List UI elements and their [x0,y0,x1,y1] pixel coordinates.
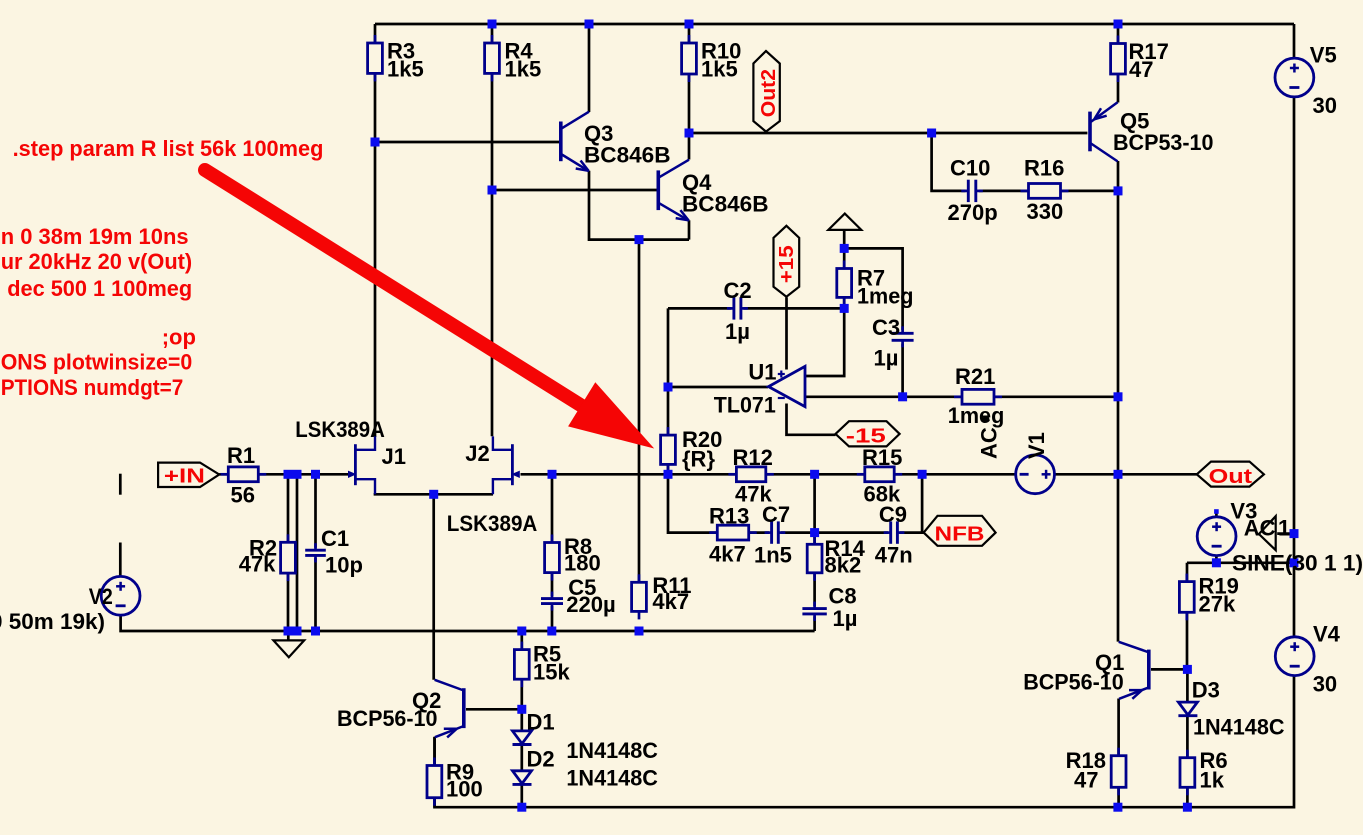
svg-text:C7: C7 [762,502,790,527]
svg-text:dec 500 1 100meg: dec 500 1 100meg [7,276,192,301]
svg-text:BC846B: BC846B [682,192,769,217]
svg-text:AC: AC [977,427,1002,459]
svg-text:V2: V2 [89,584,113,609]
svg-text:J1: J1 [382,444,406,469]
svg-text:D2: D2 [527,747,555,772]
svg-text:BCP53-10: BCP53-10 [1113,130,1214,155]
svg-text:1: 1 [1278,515,1290,540]
svg-text:Out: Out [1209,466,1253,488]
svg-text:8k2: 8k2 [825,553,862,578]
svg-text:R15: R15 [862,445,902,470]
svg-text:270p: 270p [948,200,998,225]
svg-text:47: 47 [1074,768,1098,793]
svg-text:V5: V5 [1310,43,1337,68]
svg-text:27k: 27k [1199,592,1236,617]
svg-text:C3: C3 [872,315,900,340]
svg-text:C9: C9 [879,502,907,527]
svg-text:0 50m 19k): 0 50m 19k) [0,609,105,634]
svg-text:C8: C8 [829,584,857,609]
svg-text:30: 30 [1313,672,1337,697]
svg-text:C2: C2 [724,278,752,303]
svg-text:15k: 15k [533,660,570,685]
svg-text:Out2: Out2 [758,69,780,117]
svg-text:R1: R1 [227,443,255,468]
svg-text:R16: R16 [1024,156,1064,181]
svg-text:220µ: 220µ [566,592,616,617]
svg-text:1k5: 1k5 [387,57,424,82]
svg-text:56: 56 [231,483,255,508]
svg-text:NFB: NFB [935,524,985,546]
svg-text:100: 100 [446,777,483,802]
svg-text:R13: R13 [709,504,749,529]
svg-text:ONS plotwinsize=0: ONS plotwinsize=0 [1,350,193,375]
svg-text:1n5: 1n5 [754,543,792,568]
svg-text:1k5: 1k5 [505,57,542,82]
svg-text:C1: C1 [321,526,349,551]
svg-text:.step param R list 56k 100meg: .step param R list 56k 100meg [13,136,324,161]
svg-text:4k7: 4k7 [652,589,689,614]
svg-text:1meg: 1meg [948,403,1005,428]
svg-text:C10: C10 [950,156,990,181]
svg-text:47n: 47n [875,543,913,568]
svg-text:330: 330 [1027,199,1064,224]
svg-text:AC: AC [1244,515,1276,540]
svg-text:-15: -15 [846,426,886,448]
svg-text:SINE(30 1 1): SINE(30 1 1) [1232,551,1363,576]
svg-text:1k5: 1k5 [701,57,738,82]
svg-text:PTIONS numdgt=7: PTIONS numdgt=7 [1,375,184,400]
svg-text:V1: V1 [1024,432,1049,459]
svg-text:TL071: TL071 [714,393,776,418]
svg-text:ur 20kHz 20 v(Out): ur 20kHz 20 v(Out) [1,249,193,274]
svg-text:BC846B: BC846B [584,143,671,168]
svg-text:1k: 1k [1200,768,1225,793]
svg-text:1µ: 1µ [874,346,899,371]
svg-text:1meg: 1meg [857,284,914,309]
svg-text:J2: J2 [465,441,489,466]
svg-text:BCP56-10: BCP56-10 [1023,670,1123,695]
svg-text:BCP56-10: BCP56-10 [337,706,438,731]
svg-text:D3: D3 [1192,678,1220,703]
svg-text:10p: 10p [325,553,363,578]
svg-text:30: 30 [1313,93,1337,118]
svg-text:;op: ;op [162,325,196,350]
svg-text:+IN: +IN [164,466,205,488]
svg-text:180: 180 [564,551,601,576]
svg-text:47k: 47k [239,552,276,577]
svg-text:1N4148C: 1N4148C [566,738,658,763]
svg-text:U1: U1 [748,360,776,385]
svg-text:47: 47 [1129,57,1153,82]
svg-text:1N4148C: 1N4148C [1193,715,1285,740]
svg-text:n 0 38m 19m 10ns: n 0 38m 19m 10ns [1,224,189,249]
svg-text:1µ: 1µ [725,319,750,344]
svg-text:LSK389A: LSK389A [447,511,538,536]
svg-text:1N4148C: 1N4148C [566,766,658,791]
svg-text:R12: R12 [733,445,773,470]
svg-text:{R}: {R} [682,447,715,472]
svg-text:4k7: 4k7 [709,542,746,567]
svg-text:D1: D1 [527,710,555,735]
svg-text:V4: V4 [1313,622,1341,647]
svg-text:1µ: 1µ [833,606,858,631]
svg-text:LSK389A: LSK389A [295,417,385,442]
svg-text:+15: +15 [776,245,798,283]
svg-text:R21: R21 [955,364,995,389]
